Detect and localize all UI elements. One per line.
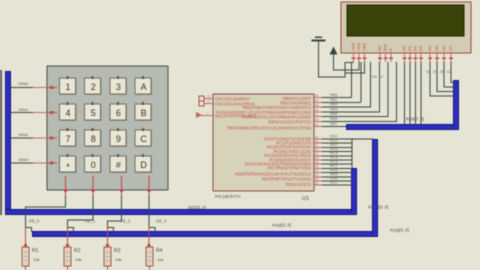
- LCD LCD1 module: [341, 2, 471, 53]
- wire RD5: [322, 176, 352, 177]
- keypad column wire COL3: [148, 176, 156, 247]
- svg-text:3: 3: [116, 82, 121, 92]
- svg-text:RB5: RB5: [330, 117, 337, 121]
- svg-text:1Rw2: 1Rw2: [18, 132, 29, 137]
- svg-text:R4: R4: [156, 248, 163, 254]
- svg-text:RW: RW: [383, 44, 388, 51]
- wire LCD D1 to data bus: [410, 62, 411, 124]
- svg-text:9: 9: [116, 134, 121, 144]
- U1 right pin numbers RB group: [315, 94, 319, 127]
- svg-text:1Rw1: 1Rw1: [18, 107, 29, 112]
- bus KBD bottom horizontal: [5, 209, 357, 215]
- svg-text:D0: D0: [402, 45, 407, 51]
- svg-text:RB3: RB3: [330, 107, 337, 111]
- svg-text:10k: 10k: [75, 257, 81, 262]
- bus KEY horizontal: [32, 231, 378, 237]
- wire RC6: [322, 164, 352, 165]
- svg-text:VSS: VSS: [351, 43, 356, 51]
- wire RD1: [322, 143, 352, 144]
- svg-text:D7: D7: [447, 70, 452, 74]
- wire LCD D6 hook to bus riser: [444, 62, 455, 88]
- bus LCD data horizontal: [346, 124, 459, 130]
- wire RB0 to LCD: [322, 62, 352, 98]
- svg-text:40: 40: [315, 123, 319, 127]
- wire RB4 to LCD: [322, 62, 389, 117]
- svg-text:13: 13: [207, 94, 211, 98]
- bus LCD data vertical riser: [453, 80, 459, 127]
- svg-text:10k: 10k: [115, 257, 121, 262]
- U1 left pin OSC1 (pin 13): [199, 94, 251, 102]
- svg-text:0: 0: [91, 160, 96, 170]
- svg-text:B: B: [141, 108, 147, 118]
- wire LCD D3 to data bus: [421, 62, 422, 124]
- svg-text:8: 8: [91, 134, 96, 144]
- wire RD6: [322, 181, 352, 182]
- svg-text:D3: D3: [418, 45, 423, 51]
- svg-text:RB7/AN9/ICSPDAT/C3.2C2/KBI3/CE: RB7/AN9/ICSPDAT/C3.2C2/KBI3/CE7/PGD: [227, 126, 311, 131]
- svg-text:RB1: RB1: [330, 98, 337, 102]
- svg-text:37: 37: [315, 113, 319, 117]
- bus KEY vertical riser: [372, 139, 378, 234]
- svg-text:PIC16F877A: PIC16F877A: [215, 194, 241, 199]
- wire RD3: [322, 151, 352, 152]
- svg-text:D4: D4: [426, 70, 431, 74]
- svg-text:1Rw3: 1Rw3: [18, 157, 29, 162]
- resistor R4: [146, 247, 163, 270]
- keypad row wire ROW0: [10, 86, 57, 89]
- wire RC5: [322, 160, 352, 161]
- power symbol VDD: [330, 47, 338, 71]
- U1 left pin OSC2 (pin 14): [199, 99, 255, 107]
- svg-text:35: 35: [315, 103, 319, 107]
- svg-text:D5: D5: [434, 45, 439, 51]
- wire RC4: [322, 155, 352, 156]
- wire VEE drop: [345, 62, 365, 74]
- svg-text:1Rw0: 1Rw0: [18, 81, 29, 86]
- svg-text:34: 34: [315, 98, 319, 102]
- svg-text:RD7/PSP7/P1D/T1G/SS2: RD7/PSP7/P1D/T1G/SS2: [262, 176, 312, 181]
- svg-text:RB5/AN13/CCP3/T1G: RB5/AN13/CCP3/T1G: [268, 119, 311, 124]
- svg-text:KB_3: KB_3: [156, 219, 167, 224]
- svg-text:KBD[3..0]: KBD[3..0]: [188, 205, 206, 210]
- svg-text:D2: D2: [413, 45, 418, 51]
- svg-text:38: 38: [315, 118, 319, 122]
- svg-text:KB_1: KB_1: [85, 219, 96, 224]
- svg-text:D5: D5: [433, 70, 438, 74]
- U1 right pin numbers RC/RD group: [315, 135, 319, 185]
- PIC microcontroller U1: [213, 94, 314, 202]
- wire RB5 to LCD: [322, 62, 397, 122]
- svg-text:D7: D7: [448, 45, 453, 51]
- svg-text:10k: 10k: [33, 257, 39, 262]
- wire RB3 to LCD: [322, 62, 380, 112]
- svg-text:D6: D6: [441, 45, 446, 51]
- svg-text:VDD: VDD: [356, 42, 361, 51]
- LCD1 pin junction marks: [352, 58, 454, 60]
- resistor R2: [64, 247, 81, 270]
- wire LCD D5 hook to bus riser: [437, 62, 455, 92]
- resistor R3: [104, 247, 121, 270]
- ground symbol: [312, 37, 326, 78]
- wire RB2 to LCD: [322, 62, 371, 108]
- svg-text:RC7/RX/DT/PSP7/SDI: RC7/RX/DT/PSP7/SDI: [268, 166, 311, 171]
- svg-text:C: C: [140, 134, 147, 144]
- keypad row wire ROW3: [10, 162, 57, 165]
- svg-text:KBD4[3..0]: KBD4[3..0]: [368, 205, 388, 210]
- junction vertical into KBD bus riser: [352, 139, 353, 168]
- svg-text:D: D: [140, 160, 147, 170]
- wire RC7: [322, 168, 352, 169]
- bus KBD right vertical riser: [351, 168, 357, 212]
- svg-text:36: 36: [315, 108, 319, 112]
- svg-text:D6: D6: [440, 70, 445, 74]
- U1 interior left/right pin name rows: [216, 96, 311, 187]
- svg-text:RB7: RB7: [330, 122, 337, 126]
- svg-text:14: 14: [207, 99, 211, 103]
- wire RB1 to LCD: [322, 62, 362, 103]
- svg-text:D4: D4: [427, 45, 432, 51]
- wire LCD D0 to data bus: [404, 62, 405, 124]
- keypad row wire ROW1: [10, 111, 57, 114]
- svg-text:KB_2: KB_2: [120, 219, 131, 224]
- LCD1 pin stubs: [353, 53, 452, 62]
- svg-text:2: 2: [91, 82, 96, 92]
- wire RD4: [322, 172, 352, 173]
- wire RD7: [322, 185, 352, 186]
- U1 right pins RB group stubs: [313, 97, 322, 127]
- wire LCD D2 to data bus: [415, 62, 416, 124]
- svg-text:RB0: RB0: [330, 93, 337, 97]
- keypad buttons: [60, 76, 152, 172]
- svg-text:10k: 10k: [157, 257, 163, 262]
- wire RB7 to LCD data bus: [322, 126, 346, 127]
- svg-text:*: *: [66, 162, 70, 172]
- U1 left pin MCLR (pin 1): [196, 111, 257, 119]
- svg-text:4: 4: [65, 108, 70, 118]
- wire VSS to ground: [318, 62, 354, 78]
- svg-text:R2: R2: [74, 248, 81, 254]
- svg-text:Keyp[3..0]: Keyp[3..0]: [390, 228, 409, 233]
- edge strip: [0, 70, 2, 215]
- svg-text:30: 30: [315, 181, 319, 185]
- resistor R1: [22, 247, 39, 270]
- svg-text:RB4: RB4: [330, 112, 337, 116]
- svg-text:RS: RS: [377, 45, 382, 51]
- keypad column wire COL2: [106, 176, 123, 247]
- LCD1 pin name labels (vertical): [351, 42, 454, 51]
- svg-text:KB_0: KB_0: [29, 219, 40, 224]
- svg-text:7: 7: [65, 134, 70, 144]
- svg-text:1: 1: [65, 82, 70, 92]
- wire VDD to LCD: [333, 62, 360, 71]
- svg-text:#: #: [116, 160, 121, 170]
- svg-text:Keyp[3..0]: Keyp[3..0]: [272, 223, 291, 228]
- keypad KP1 body: [47, 66, 168, 190]
- wire RD2: [322, 147, 352, 148]
- svg-text:33: 33: [315, 94, 319, 98]
- keypad row wire ROW2: [10, 137, 57, 140]
- wire RD0 to KEY bus riser: [322, 139, 373, 140]
- svg-text:E: E: [388, 48, 393, 51]
- svg-text:RD7: RD7: [330, 181, 338, 185]
- svg-text:RS: RS: [372, 75, 378, 79]
- svg-text:5: 5: [91, 108, 96, 118]
- svg-text:A: A: [141, 82, 147, 92]
- bus KBD left vertical: [5, 71, 11, 215]
- svg-text:RE2/AN7/CS: RE2/AN7/CS: [286, 182, 311, 187]
- keypad column wire COL0: [24, 176, 67, 247]
- svg-text:6: 6: [116, 108, 121, 118]
- svg-text:D1: D1: [407, 45, 412, 51]
- svg-text:R1: R1: [32, 248, 39, 254]
- svg-text:VEE: VEE: [362, 43, 367, 51]
- wire LCD D4 hook to bus riser: [430, 62, 455, 97]
- svg-text:RAB[7..4]: RAB[7..4]: [406, 117, 424, 122]
- U1 right pins RC/RD group stubs: [313, 139, 322, 186]
- svg-text:RB2: RB2: [330, 103, 337, 107]
- wire LCD D7 hook to bus riser: [451, 62, 455, 83]
- svg-text:U1: U1: [302, 196, 309, 202]
- keypad column wire COL1: [66, 176, 95, 247]
- svg-text:R3: R3: [114, 248, 121, 254]
- keypad buttons shadows: [61, 79, 153, 173]
